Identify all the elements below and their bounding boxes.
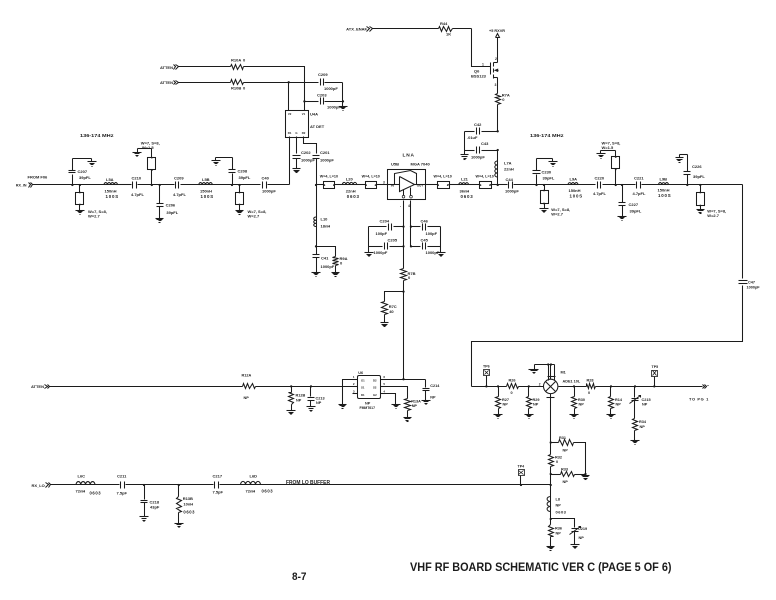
- wire: [213, 184, 261, 186]
- svg-text:1000pF: 1000pF: [324, 86, 338, 91]
- svg-text:4.7pFL: 4.7pFL: [633, 191, 646, 196]
- label title: [410, 560, 672, 574]
- ground: [582, 475, 590, 480]
- wire pin5: [386, 387, 408, 399]
- svg-text:R1: R1: [288, 131, 292, 135]
- svg-text:3: 3: [495, 83, 497, 87]
- svg-text:D1: D1: [361, 393, 365, 397]
- svg-text:0603: 0603: [461, 194, 474, 199]
- svg-text:R32: R32: [555, 456, 562, 460]
- resistor R26: [507, 378, 519, 395]
- svg-text:39pFL: 39pFL: [543, 176, 555, 181]
- capacitor C205: [369, 237, 404, 255]
- svg-text:1: 1: [482, 63, 484, 67]
- ground: [392, 405, 401, 409]
- capacitor C218: [141, 485, 160, 517]
- svg-text:W=4, L=10: W=4, L=10: [434, 174, 452, 178]
- svg-text:V2: V2: [288, 112, 292, 116]
- label: [707, 209, 726, 218]
- node: [550, 441, 552, 443]
- node: [550, 484, 552, 486]
- svg-text:100pF: 100pF: [376, 231, 388, 236]
- svg-text:R10B: R10B: [231, 85, 241, 90]
- node: [584, 473, 586, 475]
- wire: [497, 83, 499, 94]
- inductor L5B: [199, 177, 214, 199]
- svg-text:TO PG 1: TO PG 1: [689, 397, 709, 402]
- stripline stub: [697, 185, 705, 210]
- svg-text:150nH: 150nH: [569, 188, 581, 193]
- ground: [339, 405, 347, 409]
- svg-text:G: G: [295, 131, 297, 135]
- ground: [381, 323, 389, 327]
- capacitor C213: [308, 387, 325, 407]
- capacitor C210: [131, 175, 144, 197]
- wire: [181, 184, 199, 186]
- resistor R27: [496, 387, 509, 415]
- svg-text:ADE1 10L: ADE1 10L: [563, 379, 581, 383]
- svg-text:C220: C220: [595, 175, 605, 180]
- svg-text:22nH: 22nH: [504, 167, 514, 172]
- svg-text:W=4, L=10: W=4, L=10: [320, 174, 338, 178]
- inductor L9B: [658, 177, 672, 199]
- capacitor C227: [619, 185, 642, 217]
- wire: [256, 386, 353, 388]
- node: [159, 184, 161, 186]
- svg-text:OUT: OUT: [417, 183, 424, 187]
- ground: [676, 155, 684, 163]
- svg-text:4.7pFL: 4.7pFL: [131, 192, 144, 197]
- svg-text:C209: C209: [318, 72, 328, 77]
- svg-text:.01uF: .01uF: [467, 135, 478, 140]
- resistor module 2: [357, 181, 388, 189]
- svg-text:NP: NP: [412, 404, 418, 408]
- svg-text:18nH: 18nH: [321, 224, 331, 229]
- wire: [551, 519, 575, 528]
- svg-text:R10A: R10A: [231, 58, 241, 63]
- svg-text:R13A: R13A: [411, 399, 421, 403]
- node: [402, 290, 404, 292]
- svg-text:100S: 100S: [658, 193, 671, 198]
- svg-text:L20: L20: [346, 176, 354, 181]
- resistor R30: [572, 387, 585, 415]
- resistor R10B: [231, 80, 247, 91]
- node: [634, 385, 636, 387]
- resistor R29: [527, 387, 540, 415]
- svg-text:C201: C201: [320, 150, 330, 155]
- svg-text:W=1.5: W=1.5: [602, 145, 614, 150]
- inductor L8: [547, 497, 567, 515]
- svg-text:100S: 100S: [201, 194, 214, 199]
- svg-text:1000pF: 1000pF: [262, 189, 276, 194]
- inductor L7A: [495, 151, 514, 185]
- resistor R28: [587, 378, 596, 395]
- svg-text:R31: R31: [559, 436, 566, 440]
- svg-text:RX_IN: RX_IN: [16, 183, 27, 187]
- node TO PG 1 output: [689, 385, 709, 402]
- svg-text:1000pF: 1000pF: [374, 250, 388, 255]
- svg-text:R14: R14: [615, 398, 623, 402]
- label: [602, 141, 621, 150]
- svg-text:L5A: L5A: [106, 177, 114, 182]
- ground: [549, 159, 558, 167]
- svg-text:R28: R28: [587, 378, 594, 382]
- node: [402, 225, 404, 247]
- node: [573, 385, 575, 387]
- capacitor C43: [465, 141, 498, 160]
- wire: [316, 185, 318, 217]
- node: [497, 130, 499, 132]
- ground: [307, 407, 316, 412]
- ground: [618, 217, 627, 221]
- wire: [288, 83, 290, 111]
- svg-text:L9A: L9A: [570, 177, 578, 182]
- ground: [525, 415, 534, 419]
- svg-text:2: 2: [539, 383, 541, 387]
- svg-text:NP: NP: [642, 403, 648, 407]
- svg-text:C217: C217: [213, 474, 223, 479]
- inductor L6D: [241, 473, 274, 493]
- node ATX_ENAF input: [346, 27, 372, 32]
- svg-text:ATTEN: ATTEN: [160, 80, 173, 85]
- svg-text:8-7: 8-7: [292, 571, 307, 583]
- ground: [312, 273, 321, 277]
- svg-text:W=4, L=10: W=4, L=10: [476, 174, 494, 178]
- svg-text:R29: R29: [533, 398, 540, 402]
- label: [320, 174, 338, 178]
- svg-text:NP: NP: [616, 403, 622, 407]
- wire: [669, 184, 743, 186]
- svg-text:C45: C45: [421, 237, 429, 242]
- svg-text:39pFL: 39pFL: [630, 209, 642, 214]
- svg-text:100S: 100S: [570, 194, 583, 199]
- svg-text:0: 0: [556, 460, 558, 464]
- svg-text:U6: U6: [358, 371, 363, 375]
- wire: [680, 154, 688, 156]
- svg-text:NP: NP: [556, 532, 562, 536]
- svg-text:TP4: TP4: [518, 465, 525, 469]
- svg-text:C206: C206: [166, 203, 176, 208]
- capacitor C40: [262, 175, 277, 193]
- op-amp U4A AT DET box: [286, 111, 325, 138]
- svg-text:NP: NP: [430, 396, 436, 400]
- inductor L21: [459, 176, 474, 199]
- svg-text:R34: R34: [639, 420, 647, 424]
- svg-text:C214: C214: [430, 384, 440, 388]
- wire: [73, 158, 92, 160]
- ground: [461, 151, 469, 160]
- wire pin1: [343, 380, 353, 405]
- wire: [384, 315, 386, 323]
- power +5_RXVR: [489, 29, 505, 63]
- resistor R12A: [242, 374, 256, 401]
- wire: [317, 247, 336, 257]
- node: [143, 484, 145, 486]
- ground: [365, 253, 374, 257]
- wire: [216, 157, 233, 159]
- svg-text:0: 0: [588, 391, 590, 395]
- wire: [579, 184, 596, 186]
- svg-text:L6C: L6C: [78, 473, 86, 478]
- svg-text:C42: C42: [474, 122, 482, 127]
- resistor R13B: [177, 485, 196, 524]
- wire: [316, 227, 318, 247]
- label: [141, 141, 160, 150]
- capacitor C207: [69, 159, 92, 185]
- node: [151, 184, 153, 186]
- wire: [550, 475, 552, 497]
- resistor R32: [549, 443, 562, 475]
- capacitor C208: [229, 158, 251, 185]
- capacitor C217: [213, 474, 224, 495]
- svg-text:C41: C41: [321, 256, 329, 261]
- node: [699, 184, 701, 186]
- wire: [95, 484, 120, 486]
- svg-text:2: 2: [495, 57, 497, 61]
- capacitor C44: [498, 177, 535, 194]
- svg-text:100S: 100S: [106, 194, 119, 199]
- svg-text:U4A: U4A: [310, 112, 318, 117]
- svg-text:150nH: 150nH: [105, 188, 117, 193]
- wire: [342, 83, 344, 102]
- svg-text:W=2.7: W=2.7: [551, 211, 563, 216]
- stripline stub: [601, 151, 620, 185]
- wire: [138, 184, 175, 186]
- svg-text:FROM F06: FROM F06: [28, 174, 49, 179]
- svg-text:D2: D2: [373, 378, 377, 382]
- inductor L5A: [104, 177, 119, 199]
- resistor R12B: [289, 387, 306, 411]
- wire: [537, 158, 553, 160]
- svg-text:R2: R2: [302, 131, 306, 135]
- svg-text:TP6: TP6: [483, 365, 490, 369]
- svg-text:W=2.7: W=2.7: [707, 213, 719, 218]
- capacitor C215 trimmer: [630, 387, 651, 419]
- svg-text:C215: C215: [642, 398, 651, 402]
- svg-text:10nH: 10nH: [183, 502, 193, 507]
- svg-text:W=2.7: W=2.7: [248, 213, 260, 218]
- wire: [642, 184, 659, 186]
- label: [434, 174, 452, 178]
- svg-text:0603: 0603: [90, 491, 102, 496]
- svg-text:0603: 0603: [556, 510, 567, 515]
- svg-text:NP: NP: [579, 403, 585, 407]
- ground: [133, 149, 142, 157]
- svg-text:C205: C205: [388, 237, 398, 242]
- svg-text:C221: C221: [634, 175, 644, 180]
- transistor Q6 BSS123: [471, 57, 499, 87]
- wire pin6: [386, 379, 426, 381]
- node: [410, 225, 412, 247]
- resistor R36: [549, 525, 562, 547]
- wire: [472, 29, 491, 67]
- capacitor C221: [633, 175, 646, 196]
- svg-text:39pFL: 39pFL: [166, 210, 178, 215]
- wire: [373, 28, 439, 30]
- wire: [244, 82, 289, 84]
- ground: [571, 545, 580, 549]
- capacitor C42: [465, 122, 498, 140]
- node: [615, 184, 617, 186]
- resistor R44: [439, 21, 453, 37]
- wire: [535, 184, 569, 186]
- svg-text:LNA: LNA: [403, 152, 415, 158]
- resistor module 1: [317, 182, 343, 189]
- pin GND wire: [296, 137, 298, 154]
- node: [497, 184, 499, 186]
- svg-text:22nH: 22nH: [346, 188, 356, 193]
- svg-text:G1: G1: [361, 378, 365, 382]
- wire: [126, 484, 179, 486]
- resistor R14: [609, 387, 623, 415]
- svg-text:1000pF: 1000pF: [747, 285, 761, 289]
- wire: [268, 184, 290, 186]
- capacitor C209: [289, 72, 343, 91]
- test point TP4: [518, 465, 525, 487]
- resistor R33: [551, 468, 586, 485]
- ground: [570, 415, 579, 419]
- node: [79, 184, 81, 186]
- capacitor C47: [739, 280, 761, 289]
- svg-text:72nH: 72nH: [76, 489, 86, 494]
- pin labels: [400, 204, 410, 208]
- svg-text:L21: L21: [461, 176, 469, 181]
- svg-text:39pFL: 39pFL: [693, 174, 705, 179]
- resistor R34: [633, 419, 647, 441]
- svg-text:+5 RXVR: +5 RXVR: [489, 29, 505, 33]
- svg-text:136-174 MHz: 136-174 MHz: [530, 133, 564, 138]
- wire: [368, 227, 370, 253]
- svg-text:TP5: TP5: [652, 365, 659, 369]
- svg-text:W=2.7: W=2.7: [88, 213, 100, 218]
- ground: [287, 411, 296, 415]
- ground: [156, 219, 164, 223]
- svg-text:-: -: [400, 204, 401, 208]
- wire: [403, 292, 405, 380]
- svg-text:NP: NP: [316, 401, 322, 405]
- label 136-174 MHz left: [80, 133, 114, 138]
- svg-text:100pF: 100pF: [426, 231, 438, 236]
- capacitor C204: [369, 218, 404, 236]
- wire: [559, 386, 587, 388]
- svg-text:150nH: 150nH: [658, 188, 670, 193]
- ground: [529, 370, 539, 374]
- svg-text:R36: R36: [555, 527, 562, 531]
- node RX_LO input: [31, 483, 50, 489]
- inductor L10: [314, 217, 331, 229]
- svg-text:72nH: 72nH: [246, 489, 256, 494]
- svg-text:7.5pF: 7.5pF: [117, 490, 128, 495]
- stripline stub W2.7: [76, 185, 84, 211]
- svg-text:RX_LO: RX_LO: [31, 483, 44, 488]
- svg-text:S1: S1: [361, 386, 365, 390]
- svg-text:R30: R30: [578, 398, 585, 402]
- node: [342, 100, 344, 102]
- svg-text:C46: C46: [421, 218, 429, 223]
- svg-text:C219: C219: [578, 527, 587, 531]
- svg-text:G2: G2: [373, 393, 377, 397]
- wire: [118, 184, 132, 186]
- svg-text:39pFL: 39pFL: [239, 175, 251, 180]
- svg-text:FMMT617: FMMT617: [360, 406, 376, 410]
- svg-text:NP: NP: [563, 449, 569, 453]
- svg-text:M1: M1: [561, 371, 566, 375]
- svg-text:1000pF: 1000pF: [321, 264, 335, 269]
- capacitor C230: [533, 159, 555, 185]
- resistor R9A: [333, 256, 348, 266]
- svg-text:ATX_ENAF: ATX_ENAF: [346, 27, 367, 32]
- node: [610, 385, 612, 387]
- svg-text:R12B: R12B: [296, 394, 306, 398]
- node: [231, 184, 233, 186]
- label 136-174 MHz right: [530, 133, 564, 138]
- node: [550, 473, 552, 475]
- label: [88, 209, 107, 218]
- node: [686, 184, 688, 186]
- node: [71, 184, 73, 186]
- svg-text:R44: R44: [440, 21, 448, 26]
- svg-text:R13B: R13B: [183, 496, 193, 501]
- wire: [603, 184, 636, 186]
- svg-text:1K: 1K: [446, 32, 451, 37]
- wire pin4: [386, 394, 396, 405]
- inductor L20: [342, 176, 359, 199]
- wire: [440, 227, 442, 253]
- capacitor C206: [157, 185, 179, 219]
- svg-text:C209: C209: [174, 175, 184, 180]
- ground: [607, 415, 616, 419]
- svg-text:NP: NP: [640, 425, 646, 429]
- svg-text:L5B: L5B: [202, 177, 210, 182]
- svg-text:43pF: 43pF: [150, 505, 160, 510]
- pin RF1 wire: [289, 137, 291, 185]
- node: [621, 184, 623, 186]
- svg-text:C40: C40: [262, 175, 270, 180]
- capacitor C46: [411, 218, 441, 236]
- label: [476, 174, 494, 178]
- stripline stub W1.5: [138, 149, 156, 185]
- op-amp U6 box: [353, 371, 386, 410]
- resistor R7C: [382, 302, 397, 315]
- svg-text:C43: C43: [481, 141, 489, 146]
- ground: [494, 415, 503, 419]
- capacitor C211: [117, 474, 128, 496]
- resistor module 4: [469, 182, 498, 189]
- resistor R10A: [231, 58, 247, 70]
- svg-text:C207: C207: [78, 169, 88, 174]
- label: [551, 207, 570, 216]
- svg-text:C202: C202: [301, 150, 311, 155]
- label FROM LO BUFFER: [286, 480, 330, 486]
- svg-text:ATTEN: ATTEN: [31, 384, 44, 389]
- capacitor C219 trimmer: [570, 527, 588, 545]
- wire: [472, 286, 743, 387]
- wire: [179, 66, 231, 68]
- svg-text:NP: NP: [556, 503, 562, 507]
- stripline stub W2.7 b: [236, 185, 244, 211]
- capacitor C202: [293, 150, 316, 169]
- svg-text:1000pF: 1000pF: [320, 158, 334, 163]
- svg-text:C226: C226: [692, 164, 702, 169]
- node: [238, 184, 240, 186]
- svg-text:C44: C44: [506, 177, 514, 182]
- svg-text:R26: R26: [509, 378, 516, 382]
- ground: [437, 253, 446, 257]
- capacitor C220: [593, 175, 606, 196]
- wire: [403, 201, 405, 269]
- svg-text:4: 4: [408, 204, 410, 208]
- node: [402, 378, 404, 380]
